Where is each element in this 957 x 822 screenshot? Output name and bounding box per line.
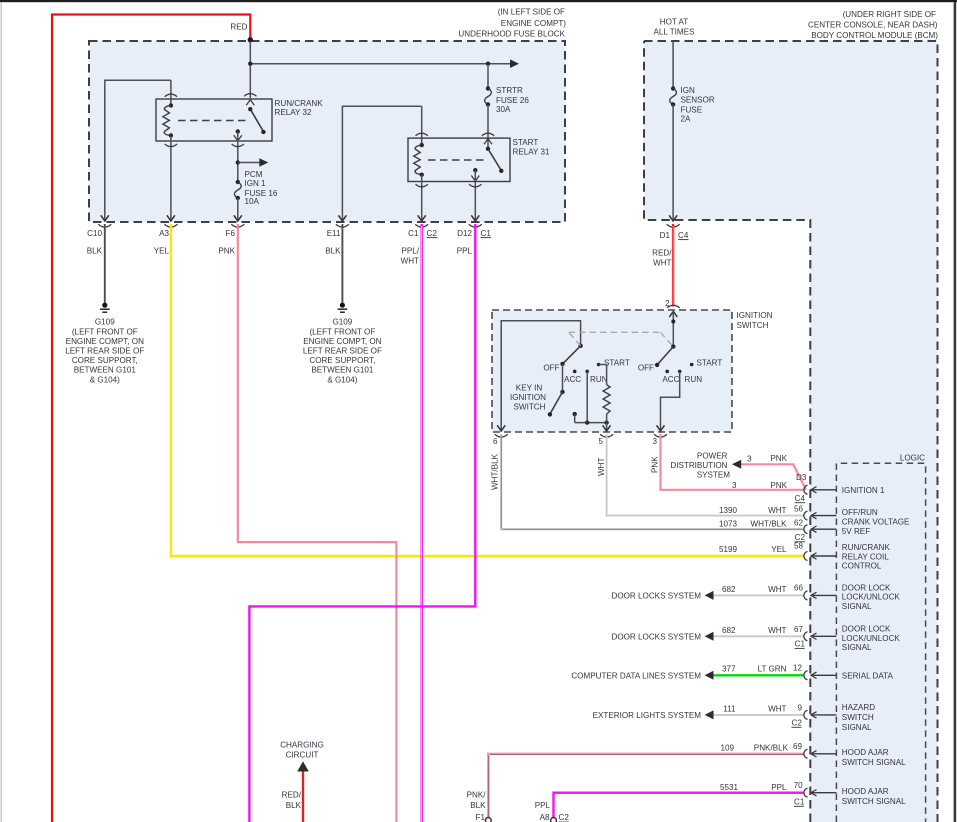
- relay RUN/CRANK RELAY 32: [156, 99, 323, 141]
- svg-text:DOOR LOCK: DOOR LOCK: [842, 624, 891, 633]
- svg-text:OFF: OFF: [638, 364, 654, 373]
- wire WHT exit 5 to BCM pin 56: [607, 434, 805, 516]
- arrow to power distribution system: [732, 460, 741, 469]
- svg-text:DOOR LOCKS SYSTEM: DOOR LOCKS SYSTEM: [612, 633, 702, 642]
- connector arcs at relay box crossings: [165, 94, 177, 97]
- svg-text:3: 3: [747, 454, 752, 463]
- relay START RELAY 31: [408, 138, 550, 181]
- ignition switch: left gang feed wire: [501, 321, 580, 431]
- svg-text:WHT/BLK: WHT/BLK: [491, 453, 500, 490]
- wire: E11 branch: [342, 106, 421, 219]
- BCM pin 66 door lock lock/unlock signal: [722, 583, 900, 611]
- node junction at STRTR fuse: [486, 62, 490, 66]
- svg-text:111: 111: [723, 705, 736, 714]
- relay switch (start): [471, 139, 503, 181]
- svg-text:RUN/CRANK: RUN/CRANK: [842, 543, 891, 552]
- svg-text:RED: RED: [230, 23, 247, 32]
- header: BCM location: [808, 10, 938, 40]
- wire: relay coil bottom to A3: [170, 136, 172, 220]
- svg-text:PNK/: PNK/: [467, 791, 487, 800]
- header: hot at all times: [654, 18, 696, 37]
- mechanical link (run/crank): [178, 120, 249, 122]
- wire WHT exterior lights 9: [713, 714, 805, 716]
- node junction: [248, 62, 252, 66]
- svg-text:RED/: RED/: [652, 248, 672, 257]
- svg-text:IGNITION 1: IGNITION 1: [842, 486, 885, 495]
- svg-text:HOOD AJAR: HOOD AJAR: [842, 787, 889, 796]
- svg-text:C4: C4: [795, 494, 806, 503]
- right gang contacts ACC / RUN / START: [638, 358, 723, 384]
- svg-text:PNK: PNK: [651, 456, 660, 473]
- svg-text:377: 377: [722, 665, 736, 674]
- svg-text:IGNITION: IGNITION: [737, 311, 773, 320]
- svg-text:SIGNAL: SIGNAL: [842, 602, 872, 611]
- svg-text:5531: 5531: [720, 783, 739, 792]
- connector C1 / C2: [401, 224, 438, 265]
- relay switch (run/crank): [234, 100, 266, 141]
- BCM pin 70 hood ajar switch signal: [720, 781, 906, 807]
- svg-text:(IN LEFT SIDE OF: (IN LEFT SIDE OF: [498, 7, 565, 16]
- svg-text:HOT AT: HOT AT: [660, 18, 689, 27]
- wire: internal bus to STRTR fuse: [250, 63, 514, 65]
- svg-text:G109: G109: [95, 317, 115, 326]
- svg-text:62: 62: [794, 519, 804, 528]
- BCM pin IGNITION 1: [795, 485, 885, 503]
- BCM pin 62 5v ref: [719, 519, 836, 543]
- svg-text:9: 9: [797, 704, 802, 713]
- svg-text:RUN/CRANK: RUN/CRANK: [275, 99, 324, 108]
- svg-text:2A: 2A: [681, 115, 692, 124]
- svg-text:10A: 10A: [245, 197, 260, 206]
- ignition switch: right gang feed wire: [672, 311, 674, 347]
- svg-text:682: 682: [722, 626, 736, 635]
- svg-text:SIGNAL: SIGNAL: [842, 643, 872, 652]
- wire RUN contact down: [586, 371, 588, 422]
- svg-text:3: 3: [732, 481, 737, 490]
- svg-text:DOOR LOCKS SYSTEM: DOOR LOCKS SYSTEM: [612, 592, 702, 601]
- connector C10: [87, 224, 112, 255]
- svg-text:SWITCH SIGNAL: SWITCH SIGNAL: [842, 758, 906, 767]
- svg-text:F6: F6: [226, 229, 236, 238]
- svg-text:PPL: PPL: [535, 801, 551, 810]
- wire: run/crank coil top feed: [170, 80, 172, 105]
- svg-text:PNK: PNK: [218, 246, 235, 255]
- wire: start coil bottom to C1/C2: [421, 175, 423, 220]
- relay coil (run/crank): [163, 103, 173, 137]
- svg-text:CHARGING: CHARGING: [280, 741, 324, 750]
- bottom rail of left gang: [575, 422, 607, 424]
- terminal F1 (underhood fuse block): [467, 791, 492, 822]
- BCM pin 69 hood ajar switch signal: [720, 742, 906, 767]
- svg-text:C2: C2: [792, 719, 803, 728]
- wire PNK exit 3 to BCM ignition 1: [661, 434, 805, 490]
- svg-text:CORE SUPPORT,: CORE SUPPORT,: [309, 356, 375, 365]
- svg-text:66: 66: [794, 584, 804, 593]
- wire: relay output to F6: [237, 132, 239, 183]
- fuse IGN SENSOR FUSE 2A: [670, 86, 715, 124]
- svg-text:PCM: PCM: [245, 170, 263, 179]
- charging circuit arrow + wire RED/BLK: [280, 741, 324, 822]
- svg-text:BLK: BLK: [87, 246, 103, 255]
- svg-text:DOOR LOCK: DOOR LOCK: [842, 583, 891, 592]
- logic box (inside BCM): [836, 454, 925, 822]
- left gang contacts: [543, 358, 630, 384]
- svg-text:1073: 1073: [719, 520, 738, 529]
- arrow door locks system (lower): [705, 632, 714, 641]
- svg-text:58: 58: [794, 542, 804, 551]
- svg-text:LT GRN: LT GRN: [758, 665, 787, 674]
- svg-text:A3: A3: [159, 229, 169, 238]
- svg-text:ACC: ACC: [662, 375, 679, 384]
- BCM pin 9 hazard switch signal: [723, 703, 875, 732]
- svg-text:C2: C2: [427, 229, 438, 238]
- svg-text:(UNDER RIGHT SIDE OF: (UNDER RIGHT SIDE OF: [843, 10, 936, 19]
- wire: RUN contact to exit 3: [661, 371, 680, 431]
- svg-text:LOCK/UNLOCK: LOCK/UNLOCK: [842, 593, 901, 602]
- svg-text:5199: 5199: [719, 545, 738, 554]
- svg-text:F1: F1: [476, 813, 486, 822]
- svg-text:56: 56: [794, 505, 804, 514]
- svg-text:CRANK VOLTAGE: CRANK VOLTAGE: [842, 517, 910, 526]
- ignition switch box: [492, 310, 732, 432]
- svg-text:RUN: RUN: [685, 375, 703, 384]
- wire PNK F6 down and to page bottom: [238, 224, 397, 822]
- svg-text:KEY IN: KEY IN: [516, 383, 543, 392]
- svg-text:C2: C2: [559, 813, 570, 822]
- arrow door locks system (upper): [705, 591, 714, 600]
- svg-text:COMPUTER DATA LINES SYSTEM: COMPUTER DATA LINES SYSTEM: [571, 671, 701, 680]
- svg-text:RED/: RED/: [282, 791, 302, 800]
- wire PPL/WHT C1/C2 to page bottom: [421, 224, 423, 822]
- key-in contact + stub: [573, 412, 577, 423]
- arrow exterior lights system: [705, 710, 714, 719]
- body control module (BCM) box: [644, 41, 938, 822]
- node on feed: [671, 320, 675, 324]
- svg-text:RELAY 31: RELAY 31: [513, 148, 551, 157]
- svg-text:C1: C1: [794, 798, 805, 807]
- svg-text:D12: D12: [457, 229, 472, 238]
- wire BLK E11 to ground: [341, 224, 343, 303]
- svg-text:12: 12: [793, 664, 803, 673]
- svg-text:ENGINE COMPT): ENGINE COMPT): [501, 19, 567, 28]
- svg-text:BODY CONTROL MODULE (BCM): BODY CONTROL MODULE (BCM): [811, 31, 938, 40]
- svg-text:30A: 30A: [496, 105, 511, 114]
- wire: BCM internal feed from hot at all times: [672, 41, 674, 89]
- wire RED battery feed bus: [52, 15, 250, 822]
- BCM pin 56 off/run crank voltage: [719, 505, 910, 537]
- svg-text:D3: D3: [796, 473, 807, 482]
- wire: start relay output to D12/C1: [474, 170, 476, 219]
- svg-text:ACC: ACC: [564, 375, 581, 384]
- connector 2 at ignition switch top: [665, 299, 680, 317]
- svg-text:SWITCH SIGNAL: SWITCH SIGNAL: [842, 797, 906, 806]
- header: underhood fuse block location: [458, 7, 566, 38]
- BCM pin 67 door lock lock/unlock signal: [722, 624, 900, 652]
- svg-text:C1: C1: [408, 229, 419, 238]
- svg-text:HAZARD: HAZARD: [842, 703, 875, 712]
- svg-text:CONTROL: CONTROL: [842, 562, 882, 571]
- svg-text:ALL TIMES: ALL TIMES: [654, 28, 696, 37]
- svg-text:WHT: WHT: [597, 458, 606, 476]
- svg-text:69: 69: [793, 742, 803, 751]
- svg-text:RELAY COIL: RELAY COIL: [842, 552, 889, 561]
- svg-text:PPL: PPL: [771, 783, 787, 792]
- svg-text:A8: A8: [540, 813, 550, 822]
- ground G109 (right): [303, 303, 382, 385]
- ground G109 (left): [65, 303, 144, 385]
- svg-text:START: START: [513, 138, 539, 147]
- svg-text:C10: C10: [87, 229, 102, 238]
- svg-text:IGNITION: IGNITION: [510, 393, 546, 402]
- svg-text:WHT: WHT: [768, 705, 786, 714]
- svg-text:PPL: PPL: [457, 246, 473, 255]
- mechanical link (start): [428, 159, 487, 161]
- wire: C10 branch: [105, 80, 171, 219]
- svg-text:RUN: RUN: [590, 375, 608, 384]
- svg-text:& G104): & G104): [90, 375, 120, 384]
- svg-text:C1: C1: [481, 229, 492, 238]
- svg-text:BETWEEN G101: BETWEEN G101: [311, 366, 374, 375]
- svg-text:SERIAL DATA: SERIAL DATA: [842, 671, 894, 680]
- node + arrow branch (PCM feed): [236, 160, 240, 164]
- wire: fuse 16 to F6 exit: [237, 198, 239, 220]
- svg-text:LOGIC: LOGIC: [900, 454, 925, 463]
- wire: fuse block internal feed: [249, 41, 251, 98]
- svg-text:WHT: WHT: [401, 256, 419, 265]
- svg-text:OFF: OFF: [543, 364, 559, 373]
- svg-text:START: START: [697, 358, 723, 367]
- svg-text:WHT/BLK: WHT/BLK: [751, 520, 788, 529]
- fuse block bottom exit arrows (chevrons): [101, 215, 480, 221]
- svg-text:3: 3: [652, 437, 657, 446]
- svg-text:SWITCH: SWITCH: [842, 713, 874, 722]
- BCM pin 12 serial data: [722, 664, 894, 681]
- svg-text:SIGNAL: SIGNAL: [842, 723, 872, 732]
- svg-text:ENGINE COMPT, ON: ENGINE COMPT, ON: [303, 337, 381, 346]
- svg-text:WHT: WHT: [768, 585, 786, 594]
- svg-text:67: 67: [794, 625, 804, 634]
- wire PNK/BLK hood ajar 69: [488, 754, 804, 822]
- svg-text:RELAY 32: RELAY 32: [275, 108, 313, 117]
- wire LT GRN serial data 12: [713, 674, 805, 676]
- underhood fuse block box: [89, 41, 565, 222]
- svg-text:WHT: WHT: [653, 258, 671, 267]
- svg-text:5: 5: [598, 437, 603, 446]
- svg-text:DISTRIBUTION: DISTRIBUTION: [670, 461, 727, 470]
- ignition switch: right gang pivot + blade: [655, 344, 676, 367]
- fuse PCM IGN 1 FUSE 16 10A: [234, 170, 277, 206]
- wire WHT door locks 67: [713, 635, 805, 637]
- svg-text:C1: C1: [795, 640, 806, 649]
- svg-text:5V REF: 5V REF: [842, 527, 870, 536]
- svg-text:START: START: [604, 358, 630, 367]
- relay coil (start): [414, 143, 424, 177]
- wire from STRTR fuse to start relay: [487, 105, 489, 149]
- svg-text:SYSTEM: SYSTEM: [697, 470, 731, 479]
- connector A3: [154, 224, 178, 255]
- wire WHT/BLK exit 6 to BCM pin 62: [501, 434, 804, 529]
- svg-text:E11: E11: [327, 229, 341, 238]
- arrow right (bus continues): [510, 59, 519, 68]
- wire BLK C10 to ground: [104, 224, 106, 303]
- wire: start relay coil feed: [421, 106, 423, 145]
- wire to STRTR fuse: [487, 64, 489, 89]
- svg-text:ENGINE COMPT, ON: ENGINE COMPT, ON: [66, 337, 144, 346]
- wire: fuse to BCM D1 exit: [672, 105, 674, 220]
- svg-text:FUSE: FUSE: [681, 105, 703, 114]
- wire PPL D12/C1 down, left, to page bottom: [249, 224, 475, 822]
- wire RED/WHT BCM to ignition switch: [652, 224, 673, 307]
- svg-text:BLK: BLK: [470, 801, 486, 810]
- resistor (ignition switch): [599, 365, 611, 423]
- wire YEL A3 to BCM pin 58: [171, 224, 805, 556]
- svg-text:PNK/BLK: PNK/BLK: [754, 743, 789, 752]
- key-in switch blade: [510, 364, 565, 417]
- svg-text:WHT: WHT: [768, 626, 786, 635]
- svg-text:1390: 1390: [719, 506, 738, 515]
- connector E11: [325, 224, 349, 255]
- svg-text:C4: C4: [678, 231, 689, 240]
- mechanical link (ignition switch, dashed): [569, 332, 674, 346]
- svg-text:109: 109: [720, 743, 734, 752]
- svg-text:PNK: PNK: [770, 454, 787, 463]
- wire PNK power distribution branch: [741, 464, 806, 490]
- svg-text:PNK: PNK: [770, 481, 787, 490]
- svg-text:G109: G109: [332, 317, 352, 326]
- svg-text:SWITCH: SWITCH: [737, 321, 769, 330]
- svg-text:CORE SUPPORT,: CORE SUPPORT,: [72, 356, 138, 365]
- wire exit 5 stub: [606, 423, 608, 431]
- svg-text:CIRCUIT: CIRCUIT: [286, 751, 319, 760]
- svg-text:YEL: YEL: [771, 545, 787, 554]
- svg-text:D1: D1: [660, 231, 671, 240]
- node: red feed junction at fuse block: [248, 37, 253, 42]
- svg-text:EXTERIOR LIGHTS SYSTEM: EXTERIOR LIGHTS SYSTEM: [593, 711, 702, 720]
- left gang pivot + blade: [560, 344, 583, 367]
- svg-text:BETWEEN G101: BETWEEN G101: [74, 366, 137, 375]
- connector D1 / C4 at BCM bottom: [660, 215, 689, 240]
- svg-text:POWER: POWER: [697, 451, 728, 460]
- svg-text:70: 70: [794, 781, 804, 790]
- svg-text:& G104): & G104): [327, 375, 357, 384]
- svg-text:BLK: BLK: [286, 801, 302, 810]
- svg-text:IGN: IGN: [681, 86, 696, 95]
- svg-text:YEL: YEL: [154, 246, 170, 255]
- BCM pin 58 run/crank relay coil control: [719, 542, 891, 571]
- svg-text:SENSOR: SENSOR: [681, 96, 715, 105]
- wire PPL hood ajar 70: [554, 793, 805, 818]
- svg-text:STRTR: STRTR: [496, 86, 523, 95]
- connector F6: [218, 224, 244, 255]
- svg-text:IGN 1: IGN 1: [245, 179, 267, 188]
- svg-text:WHT: WHT: [768, 506, 786, 515]
- svg-text:UNDERHOOD FUSE BLOCK: UNDERHOOD FUSE BLOCK: [458, 30, 565, 39]
- svg-text:LEFT REAR SIDE OF: LEFT REAR SIDE OF: [65, 347, 144, 356]
- fuse STRTR FUSE 26 30A: [485, 86, 530, 114]
- label power distribution system: [670, 451, 730, 479]
- svg-text:LOCK/UNLOCK: LOCK/UNLOCK: [842, 634, 901, 643]
- svg-text:682: 682: [722, 585, 736, 594]
- svg-text:HOOD AJAR: HOOD AJAR: [842, 748, 889, 757]
- svg-text:LEFT REAR SIDE OF: LEFT REAR SIDE OF: [303, 347, 382, 356]
- wire WHT door locks 66: [713, 594, 805, 596]
- svg-text:FUSE 26: FUSE 26: [496, 96, 529, 105]
- svg-text:6: 6: [493, 437, 498, 446]
- terminal A8 / C2: [535, 801, 570, 822]
- svg-text:CENTER CONSOLE, NEAR DASH): CENTER CONSOLE, NEAR DASH): [808, 21, 938, 30]
- arrow computer data lines system: [705, 671, 714, 680]
- svg-text:PPL/: PPL/: [401, 246, 419, 255]
- svg-text:(LEFT FRONT OF: (LEFT FRONT OF: [72, 327, 138, 336]
- ignition switch exits 6,5,3: arrows + arcs + labels: [497, 425, 664, 431]
- svg-text:SWITCH: SWITCH: [514, 402, 546, 411]
- connector D12 / C1: [457, 224, 492, 255]
- svg-text:OFF/RUN: OFF/RUN: [842, 508, 878, 517]
- svg-text:(LEFT FRONT OF: (LEFT FRONT OF: [309, 327, 375, 336]
- svg-text:BLK: BLK: [325, 246, 341, 255]
